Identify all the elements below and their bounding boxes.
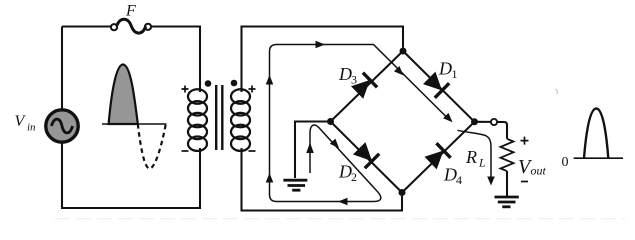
fuse F [111, 19, 151, 33]
arrow down-right mid final diagonal [394, 66, 403, 75]
label - primary [182, 150, 189, 152]
label D2 [338, 162, 357, 185]
label + primary [182, 86, 189, 93]
label RL [465, 147, 486, 170]
wire terminal to RL [497, 122, 507, 139]
arrow right on inner top wire [316, 41, 326, 49]
terminal open circle [491, 119, 497, 125]
svg-text:out: out [531, 164, 547, 178]
svg-text:0: 0 [562, 155, 569, 170]
wire right node to output terminal [475, 121, 491, 123]
wire primary top right segment [151, 27, 200, 93]
node bottom [399, 189, 406, 196]
svg-text:D: D [338, 162, 352, 182]
arrow down into RL branch [487, 177, 495, 186]
svg-text:4: 4 [456, 173, 462, 187]
label Vout [518, 156, 547, 178]
diode D2 [353, 142, 379, 168]
node right [471, 118, 478, 125]
node top [400, 48, 407, 55]
arrow up near ground [306, 143, 314, 154]
current path B node to RL [458, 130, 492, 177]
svg-text:D: D [443, 165, 457, 185]
svg-text:1: 1 [452, 67, 458, 81]
transformer polarity dot primary [205, 80, 212, 87]
node left [327, 118, 334, 125]
wire primary loop left bottom side [62, 143, 200, 209]
wire primary loop left side [61, 27, 63, 111]
diode D3 [351, 73, 377, 99]
label D3 [338, 64, 357, 87]
label Vin [15, 113, 37, 134]
wire bridge edge bottom-left [331, 122, 403, 193]
output waveform axis [574, 157, 623, 159]
wire secondary top to bridge [242, 27, 404, 93]
arrow down-right end final diagonal [443, 113, 452, 122]
wire RL to ground [506, 171, 508, 196]
arrow down-right on inner diagonal [330, 139, 339, 149]
label - secondary [249, 150, 256, 152]
input waveform positive lobe [109, 65, 138, 125]
transformer secondary coil [231, 89, 250, 151]
svg-text:L: L [478, 156, 486, 170]
label + secondary [249, 86, 256, 93]
source Vin [46, 110, 78, 142]
resistor RL [501, 139, 514, 171]
faint scan band bottom [55, 218, 625, 220]
output waveform pulse [584, 109, 608, 159]
faint print artifact [556, 89, 558, 94]
wire secondary bottom to bridge [242, 148, 403, 211]
arrow up lower on inner left wire [266, 173, 274, 183]
diode D1 [423, 72, 449, 98]
svg-text:V: V [15, 113, 27, 130]
arrow left on inner bottom wire [338, 198, 348, 206]
current path A [270, 45, 450, 202]
svg-text:R: R [465, 147, 477, 167]
arrow up upper on inner left wire [266, 75, 274, 85]
input waveform negative dashed [138, 124, 166, 169]
wire bridge edge top-left [331, 51, 404, 122]
transformer primary coil [188, 89, 207, 151]
svg-text:F: F [125, 3, 136, 20]
transformer polarity dot secondary [231, 80, 238, 87]
svg-text:D: D [338, 64, 352, 84]
wire bridge edge top-right [403, 51, 475, 122]
svg-text:in: in [27, 122, 36, 134]
svg-text:2: 2 [351, 170, 357, 184]
wire bridge edge bottom-right [402, 122, 475, 193]
wire left node to ground [295, 122, 331, 179]
ground output [495, 197, 519, 207]
svg-text:3: 3 [351, 73, 357, 87]
transformer core [216, 85, 222, 150]
input waveform axis [102, 123, 167, 125]
diode D4 [425, 143, 451, 169]
label - Vout [521, 181, 528, 183]
wire primary top left segment [62, 25, 111, 27]
label D4 [443, 165, 462, 188]
ground bridge [283, 180, 307, 190]
svg-text:D: D [438, 59, 452, 79]
label D1 [438, 59, 458, 82]
label + Vout [521, 137, 529, 145]
